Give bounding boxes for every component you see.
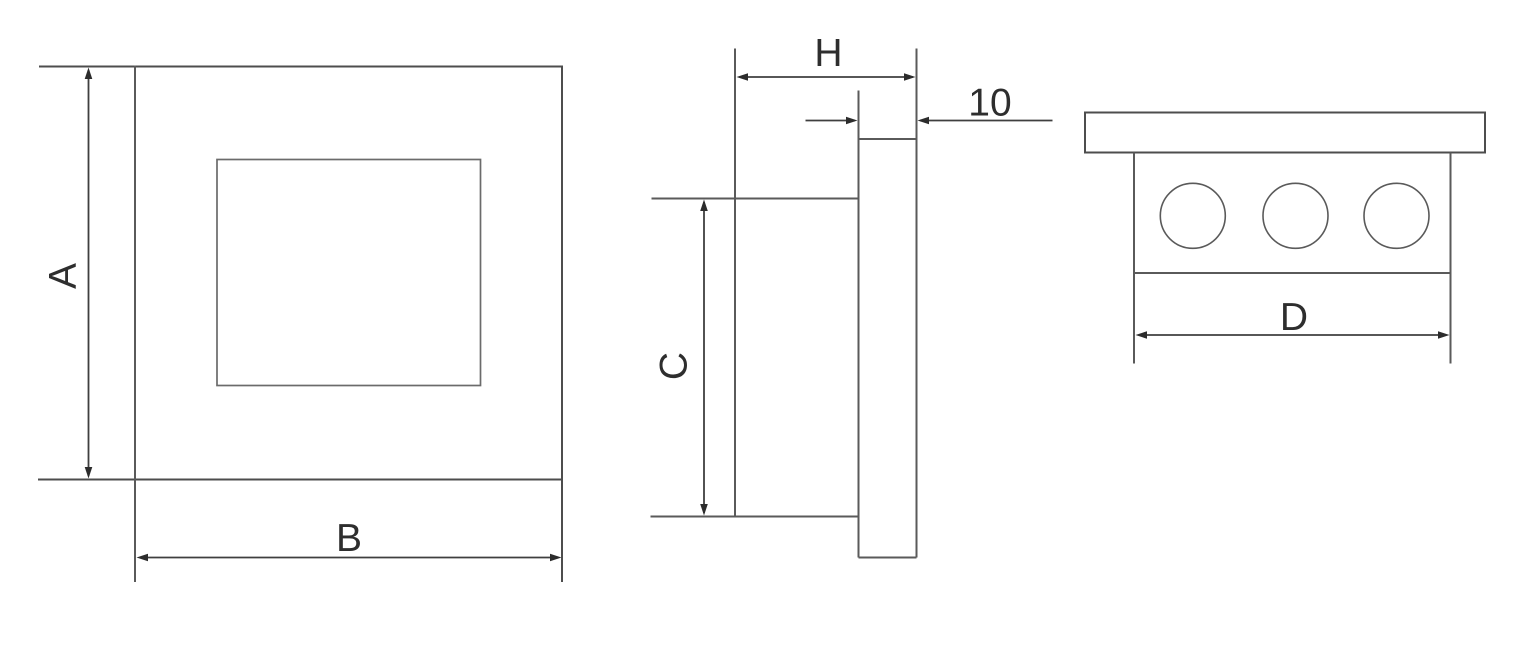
dimension H right arrow [904, 73, 916, 81]
dimension B line [140, 557, 558, 559]
side view bezel bottom edge [859, 557, 917, 559]
terminal hole circle 3 [1364, 183, 1429, 248]
svg-text:B: B [336, 517, 362, 560]
top view body right edge (with bottom extension) [1450, 153, 1452, 364]
dimension 10 left leader line [806, 120, 856, 122]
front view inner window rectangle [217, 160, 481, 386]
dimension C top arrow [700, 200, 708, 212]
svg-text:C: C [653, 352, 696, 380]
svg-text:10: 10 [968, 82, 1011, 125]
side view case bottom edge (with left extension) [651, 516, 859, 518]
dimension B left arrow [137, 554, 149, 562]
front view outer square bottom edge (with left extension) [38, 479, 562, 481]
dimension H left arrow [737, 73, 749, 81]
front view outer square left edge (with bottom extension) [134, 66, 136, 583]
dimension 10 right leader line [920, 120, 1053, 122]
dimension C bottom arrow [700, 504, 708, 516]
top view flange rectangle [1085, 113, 1485, 153]
dimension D right arrow [1438, 331, 1450, 339]
dimension H line [739, 76, 913, 78]
dimension 10 left arrow (points right) [846, 117, 858, 125]
dimension 10 right arrow (points left) [918, 117, 930, 125]
dimension A top arrow [85, 68, 93, 80]
svg-text:H: H [814, 32, 842, 75]
dimension C line [703, 202, 705, 513]
side view bezel right edge (with top extension) [916, 49, 918, 558]
svg-text:D: D [1280, 296, 1308, 339]
front view outer square top edge (with left extension) [39, 66, 562, 68]
dimension A line [88, 70, 90, 476]
dimension B right arrow [550, 554, 562, 562]
side view bezel left edge (with top extension) [858, 91, 860, 558]
side view case back edge [734, 49, 736, 517]
terminal hole circle 2 [1263, 183, 1328, 248]
dimension A bottom arrow [85, 467, 93, 479]
dimension D left arrow [1136, 331, 1148, 339]
front view outer square right edge (with bottom extension) [561, 66, 563, 583]
side view bezel top edge [859, 138, 917, 140]
terminal hole circle 1 [1160, 183, 1225, 248]
svg-text:A: A [42, 263, 85, 289]
top view body bottom edge [1134, 272, 1451, 274]
dimension D line [1139, 334, 1446, 336]
top view body left edge (with bottom extension) [1133, 153, 1135, 364]
side view case top edge (with left extension) [652, 198, 859, 200]
